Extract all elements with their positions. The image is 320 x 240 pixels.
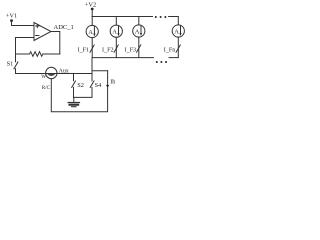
node +V2 label (85, 2, 96, 9)
label R/C (42, 85, 51, 91)
wire feedback right segment (43, 53, 60, 55)
switch blade on I_Fn branch (176, 45, 180, 52)
switch S2 wire upper (73, 74, 75, 81)
potentiometer track chord wire (46, 73, 92, 75)
bottom bus continuation dots (156, 61, 167, 63)
wire op-amp output (51, 32, 60, 55)
potentiometer terminal W label (41, 74, 46, 80)
switch S1 label (7, 61, 14, 68)
label ADC_1 (54, 24, 74, 31)
wire top bus left part (92, 16, 152, 18)
node +V2 dot (91, 8, 94, 11)
svg-text:ADC_1: ADC_1 (54, 24, 74, 31)
svg-text:A: A (88, 29, 93, 36)
svg-text:R/C: R/C (42, 85, 51, 91)
svg-text:I_F2: I_F2 (102, 47, 114, 53)
label Ih (110, 80, 115, 86)
wire I_F1 to bottom bus (91, 38, 93, 58)
potentiometer wiper (47, 74, 55, 76)
svg-text:Ih: Ih (110, 80, 115, 86)
current source I_F1 arrow (88, 27, 95, 37)
svg-text:I_F1: I_F1 (78, 47, 90, 53)
svg-text:+V2: +V2 (85, 2, 96, 9)
current source I_Fn circle (172, 25, 184, 37)
switch S2 blade (72, 81, 76, 88)
svg-text:A: A (174, 29, 179, 36)
switch S1 wire lower to pot (16, 69, 46, 74)
wire inverting input (16, 38, 35, 55)
svg-text:A: A (112, 29, 117, 36)
switch blade on I_F2 branch (114, 45, 118, 52)
label I_F3 (125, 47, 137, 53)
svg-text:Aux: Aux (59, 68, 69, 74)
current source I_F3 circle (133, 25, 145, 37)
svg-text:S4: S4 (95, 82, 103, 89)
potentiometer body circle (46, 67, 57, 78)
switch S2 wire lower (73, 87, 75, 97)
node +V1 label (6, 13, 17, 20)
wire feedback left segment (16, 53, 30, 55)
switch blade on I_F1 branch (90, 45, 94, 52)
wire +V1 to op-amp noninverting input (12, 21, 35, 26)
current source I_Fn arrow (174, 26, 181, 36)
top bus continuation dots (155, 16, 167, 18)
wire I_F2 to bottom bus (115, 37, 117, 57)
wire bus to I_F2 (115, 17, 117, 26)
wire pot bottom lead (51, 71, 107, 112)
wire bus to I_F1 (91, 17, 93, 26)
switch blade on I_F3 branch (137, 45, 141, 52)
wire bottom bus right part (169, 57, 178, 59)
current source I_F3 arrow (135, 26, 142, 36)
op-amp U1 body (34, 23, 51, 41)
svg-text:I_Fn: I_Fn (164, 47, 176, 53)
current source I_F2 circle (110, 25, 122, 37)
svg-text:A: A (135, 29, 140, 36)
wire bus to I_F3 (138, 17, 140, 25)
label I_F2 (102, 47, 114, 53)
label I_Fn (164, 47, 176, 53)
svg-text:S1: S1 (7, 61, 14, 68)
label I_F1 (78, 47, 90, 53)
wire +V2 down to top bus (91, 9, 93, 17)
label Aux (59, 68, 69, 74)
current source I_F1 circle (86, 25, 98, 37)
wire top bus right part (169, 17, 179, 26)
ground (68, 97, 79, 106)
wire stub junction to Ih branch (92, 70, 108, 72)
switch S4 blade (90, 81, 94, 88)
current arrow Ih (106, 85, 109, 88)
wire I_F3 to bottom bus (138, 37, 140, 58)
svg-text:W: W (41, 74, 46, 80)
wire I_Fn to bottom bus (177, 37, 179, 58)
svg-text:I_F3: I_F3 (125, 47, 137, 53)
op-amp plus sign (36, 24, 39, 27)
current source I_F2 arrow (112, 26, 119, 36)
wire bottom bus left part (92, 57, 153, 59)
switch S2 label (77, 82, 84, 89)
op-amp minus sign (36, 35, 39, 37)
svg-text:S2: S2 (77, 82, 84, 89)
switch S1 blade (14, 62, 18, 69)
switch S4 label (95, 82, 103, 89)
wire S4 bottom to ground node (74, 87, 93, 97)
node +V1 dot (10, 19, 13, 22)
resistor R1 (feedback) (30, 52, 43, 57)
svg-text:+V1: +V1 (6, 13, 17, 20)
switch S4 wire upper (91, 58, 93, 81)
switch S1 wire upper (15, 54, 17, 62)
